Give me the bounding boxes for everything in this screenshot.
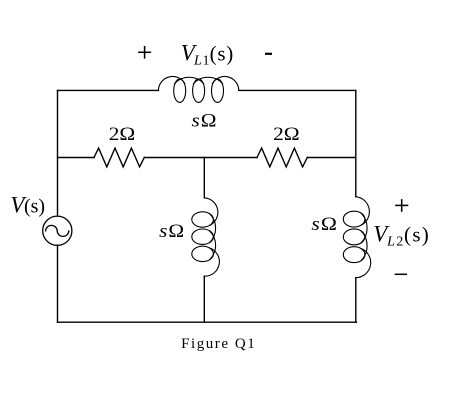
wire middle branch lower (L2 bottom lead to bottom wire) [203, 276, 205, 322]
svg-text:sΩ: sΩ [311, 214, 338, 235]
label minus sign VL1 polarity [265, 53, 272, 55]
source V(s) circle [43, 216, 72, 245]
wire top-left horizontal (top-left corner to L1 left lead) [58, 89, 159, 91]
inductor L3 sOhm right coil [343, 197, 370, 278]
wire middle row center (R1 right lead through node to R2 left lead) [144, 157, 257, 159]
svg-text:Figure Q1: Figure Q1 [181, 336, 256, 352]
label 2Ohm R1 value [109, 124, 136, 145]
svg-text:sΩ: sΩ [192, 111, 218, 132]
caption Figure Q1 [181, 336, 256, 352]
inductor L2 sOhm middle coil [192, 198, 220, 276]
source V(s) sine wave [46, 225, 69, 236]
wire left rail upper (top-left corner down to source top terminal) [57, 90, 59, 216]
wire left rail lower (source bottom terminal to bottom-left corner) [57, 245, 59, 322]
svg-text:2Ω: 2Ω [109, 124, 136, 145]
wire right rail upper (top-right corner down to L3 top lead) [355, 90, 357, 196]
label V(s) source [10, 193, 45, 218]
svg-text:sΩ: sΩ [159, 221, 185, 242]
label sOhm L2 value [159, 221, 185, 242]
inductor L1 sOhm top coil [158, 77, 238, 103]
wire middle row left (left rail to resistor R1 left lead) [58, 157, 95, 159]
svg-text:VL1(s): VL1(s) [181, 40, 234, 68]
wire bottom horizontal [58, 321, 357, 323]
wire middle branch upper (middle node down to L2 top lead) [203, 158, 205, 198]
svg-text:V(s): V(s) [10, 193, 45, 218]
label VL1(s) [181, 40, 234, 68]
wire right rail lower (L3 bottom lead to bottom-right corner) [355, 278, 357, 323]
label sOhm L1 value [192, 111, 218, 132]
label 2Ohm R2 value [273, 124, 300, 145]
svg-text:2Ω: 2Ω [273, 124, 300, 145]
label minus sign VL2 polarity [395, 273, 407, 275]
wire middle row right (R2 right lead to right rail) [307, 157, 356, 159]
label sOhm L3 value [311, 214, 338, 235]
resistor R1 2Ohm zigzag [94, 148, 144, 167]
label plus sign VL2 polarity [395, 199, 408, 212]
wire top-right horizontal (L1 right lead to top-right corner) [239, 89, 356, 91]
label VL2(s) [373, 222, 429, 250]
label plus sign VL1 polarity [138, 46, 151, 59]
resistor R2 2Ohm zigzag [257, 148, 307, 167]
svg-text:VL2(s): VL2(s) [373, 222, 429, 250]
